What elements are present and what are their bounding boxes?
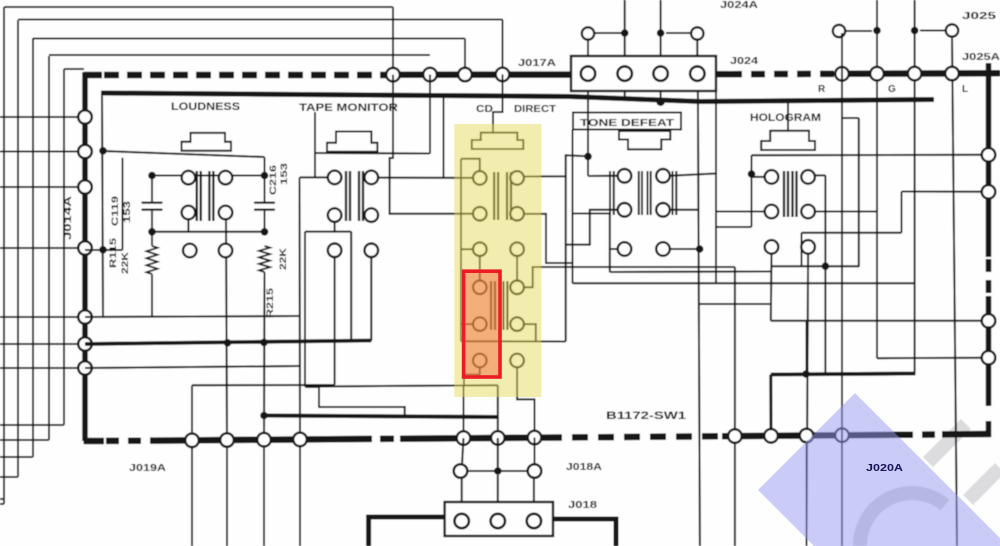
node junction on J014A bus y151.5 xyxy=(78,145,92,159)
wire vertical x443 feed xyxy=(443,96,445,178)
wire x227 below bus xyxy=(226,446,228,546)
wire w1 y272 xyxy=(610,271,771,274)
switch CD contact B2 xyxy=(510,207,524,221)
svg-text:J019A: J019A xyxy=(129,463,166,474)
junction dot rail1 x103 xyxy=(99,147,107,155)
wire x534 midrow to box xyxy=(533,478,535,502)
wire vertical x953 long xyxy=(952,37,957,546)
switch TAPE contact bars xyxy=(345,171,347,221)
switch LOUDNESS NC contact 2 xyxy=(219,244,233,258)
wire staircase vertical 1 xyxy=(3,7,5,499)
wire nested top line 4 xyxy=(49,54,430,56)
wire thick J018 right lead xyxy=(553,519,616,546)
wire x770 drop to bus xyxy=(769,375,772,436)
switch CD2 contact B2 xyxy=(510,317,524,331)
switch TONE contact A1 xyxy=(618,169,632,183)
wire y232 horizontal xyxy=(802,232,902,234)
wire vertical x463 to bus xyxy=(463,386,465,439)
wire pin3 vertical to top edge xyxy=(660,0,662,56)
wire x498 midrow to box xyxy=(497,475,499,502)
label TONE DEFEAT box xyxy=(573,113,681,130)
wire vertical x305 xyxy=(304,232,306,387)
wire vertical x572 from label box xyxy=(572,130,574,284)
wire LOUDNESS rail3 xyxy=(152,231,265,233)
wire y321 long horizontal xyxy=(771,320,989,322)
watermark gray slash 1 xyxy=(928,424,966,462)
switch HOLOGRAM button cap xyxy=(761,131,815,150)
wire nested line1 drop to J017A bus xyxy=(392,7,394,75)
resistor R215 xyxy=(259,246,270,272)
wire mid row horizontal xyxy=(455,470,539,472)
svg-text:L: L xyxy=(962,84,968,95)
wire left tap 1 from J014A bus xyxy=(0,116,85,118)
junction dot x825 y266 xyxy=(822,262,830,270)
switch TONE contact B2 xyxy=(656,203,670,217)
wire HOLOGRAM row1L stub xyxy=(752,176,765,178)
switch CD NC contact 2 xyxy=(510,242,524,256)
wire left tap 4 from J014A bus xyxy=(0,247,85,249)
wire nested line 5 short xyxy=(64,68,84,70)
svg-text:J017A: J017A xyxy=(518,58,556,69)
wire HOLOGRAM NC row line xyxy=(771,265,860,267)
wire pin1 stub up xyxy=(587,40,589,56)
wire CD row3L link xyxy=(461,248,473,250)
wire vertical x565 row1R zig down xyxy=(565,176,567,341)
wire TAPE NC2 drop to thick line xyxy=(370,257,372,341)
wire y316 horizontal xyxy=(85,316,300,317)
node junction on J014A bus y187 xyxy=(78,180,92,194)
wire HOLOGRAM NC1 drop xyxy=(770,254,773,321)
wire vertical x735 to bus xyxy=(734,267,736,436)
junction dot pin3 top xyxy=(657,29,665,37)
wire TAPE row1 left lead xyxy=(300,176,333,178)
switch TAPE contact B1 xyxy=(328,208,342,222)
switch TONE contact A2 xyxy=(656,169,670,183)
wire R215 bottom long lead to bus xyxy=(263,272,266,440)
svg-text:DIRECT: DIRECT xyxy=(514,104,556,115)
wire CD row1R zig to TONE row1L xyxy=(524,155,588,176)
svg-text:R: R xyxy=(818,84,826,95)
wire vertical x315 xyxy=(314,112,316,177)
switch TONE outer bar left xyxy=(609,171,611,215)
wire y385 horizontal xyxy=(192,384,335,386)
wire x735 below bus xyxy=(734,442,736,546)
wire y191 horizontal xyxy=(902,191,989,193)
wire R115 top lead xyxy=(151,232,153,246)
connector J017A box xyxy=(571,56,716,91)
bus right vertical lower xyxy=(986,296,992,406)
svg-text:22K: 22K xyxy=(278,247,288,270)
wire vertical x914 from top edge xyxy=(914,0,916,374)
switch CD2 contact A1 xyxy=(473,281,487,295)
node junction on top bus x502 xyxy=(496,68,510,82)
bus bottom corner at J019A xyxy=(83,438,85,444)
switch LOUDNESS contact bars xyxy=(196,171,198,221)
junction dot y374 x806 xyxy=(802,370,810,378)
switch TONE contact B1 xyxy=(618,203,632,217)
svg-text:J024A: J024A xyxy=(720,0,758,11)
switch LOUDNESS contact B1 xyxy=(182,206,196,220)
wire vertical x877 from top edge xyxy=(876,0,878,358)
node junction bottom bus x842 xyxy=(835,428,849,442)
wire y358 horizontal xyxy=(877,357,989,360)
wire y366 horizontal xyxy=(85,366,300,368)
switch TONE NC contact 2 xyxy=(656,242,670,256)
bus solid thick line (second horizontal) xyxy=(101,93,934,102)
wire TONE row1R to x716 xyxy=(670,174,716,176)
switch CD NC contact 1 xyxy=(473,242,487,256)
junction dot rail3 x152 xyxy=(148,228,156,236)
connector J018 box xyxy=(445,502,553,536)
wire LOUDNESS rail1 xyxy=(103,151,265,157)
capacitor C216 symbol xyxy=(254,202,275,204)
switch HOLOGRAM contact bars xyxy=(783,171,785,217)
wire x806 below bus xyxy=(806,441,808,546)
wire vertical from solid-line corner x103 xyxy=(102,93,103,317)
junction dot rail3 x264 xyxy=(261,228,269,236)
switch LOUDNESS button cap xyxy=(182,133,232,151)
junction dot x751 y174 xyxy=(748,170,756,178)
junction dot x103 y250 xyxy=(99,246,107,254)
node circle x839 xyxy=(833,25,845,37)
junction on solid line at pin xyxy=(656,98,664,106)
svg-text:R115: R115 xyxy=(108,238,118,268)
svg-text:B1172-SW1: B1172-SW1 xyxy=(606,410,686,422)
wire staircase vertical 2 xyxy=(17,20,19,477)
switch CD2 contact bars xyxy=(490,281,492,330)
wire nested line3 drop xyxy=(464,39,466,75)
wire staircase bottom horizontal 3 xyxy=(0,456,33,458)
wire x716 to x751 y227 xyxy=(716,226,752,228)
wire nested top line 1 xyxy=(4,6,393,8)
wire HOLOGRAM NC2 long drop xyxy=(807,254,809,546)
wire staircase vertical 3 xyxy=(32,38,34,457)
bus top solid segment with junctions xyxy=(388,71,571,78)
node mid circle right xyxy=(528,464,542,478)
node junction on top bus x914 xyxy=(908,67,922,81)
node junction on top bus x952 xyxy=(945,67,959,81)
wire staircase vertical 5 xyxy=(63,69,65,425)
wire vertical x498 to bus xyxy=(497,385,499,438)
wire vertical x122 rail1 to y250 xyxy=(122,158,124,250)
bus bottom dashed segment 4 xyxy=(900,431,944,438)
node junction bottom bus x192 xyxy=(185,434,199,448)
svg-text:J018: J018 xyxy=(568,500,598,511)
wire TONE NC1 stub xyxy=(610,248,618,250)
wire pin1 drop through dot xyxy=(587,91,589,176)
wire link x845-x872 xyxy=(845,30,872,32)
node circle above pin1 xyxy=(582,27,594,39)
svg-text:HOLOGRAM: HOLOGRAM xyxy=(750,112,821,124)
node junction on J014A bus y248 xyxy=(78,241,92,255)
switch TONE NC contact 1 xyxy=(618,242,632,256)
svg-text:J024: J024 xyxy=(730,56,759,67)
wire left tap 6 from J014A bus xyxy=(0,343,85,345)
wire bus junction x502 drop to cap feed xyxy=(493,74,503,133)
switch HOLOGRAM contact B2 xyxy=(801,205,815,219)
wire CD2 B1 link left xyxy=(461,323,473,325)
wire x264 below bus xyxy=(263,446,265,546)
wire vertical x430 from bus junction xyxy=(429,75,431,154)
switch TONE outer bar right xyxy=(672,171,674,215)
wire right stub vertical x842 top xyxy=(841,40,843,71)
node junction on top bus x465 xyxy=(458,68,472,82)
wire LOUDNESS rail2 xyxy=(152,175,265,177)
svg-text:153: 153 xyxy=(279,163,289,185)
bus bottom right corner segment xyxy=(942,431,991,438)
wire x588 to TONE row1L xyxy=(588,175,618,177)
wire w3 y304 xyxy=(699,303,771,305)
bus J014A vertical (thick) xyxy=(82,72,88,441)
node junction on top bus x842 xyxy=(835,67,849,81)
wire R115 bottom lead xyxy=(151,274,153,316)
svg-text:22K: 22K xyxy=(120,251,130,274)
wire C216 top lead xyxy=(264,157,266,203)
wire link circle to pin2 line xyxy=(594,32,625,34)
node circle right bus y192 xyxy=(982,185,996,199)
switch HOLOGRAM contact A2 xyxy=(801,170,815,184)
resistor R115 xyxy=(147,246,158,274)
switch CD button cap xyxy=(472,133,524,149)
wire vertical x300 long xyxy=(299,178,302,440)
wire contact B1 to rail3 xyxy=(187,219,189,232)
node junction on top bus x430 xyxy=(423,68,437,82)
switch TONE button cap pressed xyxy=(619,131,670,149)
switch CD contact A1 xyxy=(473,171,487,185)
node junction bottom bus x771 xyxy=(764,429,778,443)
switch TAPE contact A2 xyxy=(365,171,379,185)
svg-text:R215: R215 xyxy=(265,288,275,318)
svg-text:TONE DEFEAT: TONE DEFEAT xyxy=(580,117,675,129)
switch TAPE NC contact 1 xyxy=(328,244,342,258)
wire link x920-x946 xyxy=(920,30,946,32)
junction dot x588 y156 xyxy=(584,153,592,161)
wire link x843 to x859 xyxy=(843,117,859,119)
switch CD contact B1 xyxy=(473,207,487,221)
wire x801 vertical xyxy=(801,233,803,267)
junction dot mid xyxy=(494,467,502,475)
wire CD NC2 to section2 xyxy=(516,256,518,281)
wire pin2 vertical to top edge xyxy=(624,0,626,56)
watermark blue diamond xyxy=(758,393,1000,546)
node junction bottom bus x534 xyxy=(528,431,542,445)
wire x498 bus to mid row xyxy=(497,438,499,471)
junction dot rail2 x264 xyxy=(261,172,269,180)
junction dot pin2 top xyxy=(621,29,629,37)
wire pin4 long vertical xyxy=(698,91,700,546)
junction dot y342 x264 xyxy=(260,339,268,347)
switch CD2 contact B1 xyxy=(473,317,487,331)
wire staircase vertical 4 xyxy=(48,56,50,440)
wire vertical x859 xyxy=(858,118,860,266)
wire TAPE row1 right lead to CD xyxy=(375,177,473,179)
wire CD row2R jog down xyxy=(524,214,572,263)
connector J018 pin 3 xyxy=(527,514,541,528)
connector J017A pin 2 xyxy=(618,66,632,80)
wire nested line2 drop xyxy=(502,20,504,75)
bus right vertical bottom piece xyxy=(986,421,992,437)
node junction bottom bus x498 xyxy=(491,431,505,445)
svg-text:153: 153 xyxy=(122,201,132,223)
node circle x952 xyxy=(946,24,958,36)
switch HOLOGRAM NC contact 1 xyxy=(765,240,779,254)
switch TAPE button cap xyxy=(327,132,377,152)
wire staircase bottom horizontal 2 xyxy=(0,476,18,478)
switch HOLOGRAM NC contact 2 xyxy=(801,240,815,254)
bus top segment right of J017A connector xyxy=(716,71,728,78)
wire staircase bottom horizontal 4 xyxy=(0,439,49,441)
wire x462 midrow to box xyxy=(461,478,463,502)
svg-text:CD: CD xyxy=(476,104,493,115)
bus bottom solid segment left group xyxy=(158,439,358,441)
node junction bottom bus x227 xyxy=(220,433,234,447)
switch HOLOGRAM contact A1 xyxy=(765,170,779,184)
switch CD2 NC contact 2 xyxy=(510,354,524,368)
node circle right bus y155 xyxy=(982,148,996,162)
svg-text:J025A: J025A xyxy=(962,52,1000,63)
wire CD2 A2 jog up and right xyxy=(524,267,735,287)
bus right vertical dashes xyxy=(986,259,992,296)
wire contact B2 to rail3 and bus xyxy=(226,219,227,440)
wire x300 below bus xyxy=(299,446,301,546)
wire HOLOGRAM row2R stub xyxy=(815,211,877,213)
svg-text:C119: C119 xyxy=(110,196,120,226)
node junction on J014A bus y344 xyxy=(78,337,92,351)
wire x192 below bus xyxy=(191,446,193,546)
wire x901 vertical xyxy=(901,192,903,233)
wire thick J018 left lead xyxy=(369,517,445,546)
wire TAPE rail1 xyxy=(315,152,430,155)
node junction bottom bus x264 xyxy=(257,433,271,447)
wire vertical x825 xyxy=(824,175,826,374)
wire HOLOGRAM row2L stub xyxy=(716,211,765,213)
svg-text:TAPE MONITOR: TAPE MONITOR xyxy=(299,102,398,114)
wire pin2 below box to solid line xyxy=(624,91,626,101)
wire y417 thick horizontal xyxy=(264,416,498,418)
svg-text:J018A: J018A xyxy=(566,462,602,473)
wire staircase bottom horizontal 5 xyxy=(0,424,64,426)
wire vertical x351 to thick line xyxy=(350,232,352,341)
wire y374 thick horizontal xyxy=(771,374,916,375)
wire x463 bus to mid row xyxy=(462,438,464,464)
switch LOUDNESS contact B2 xyxy=(219,206,233,220)
junction dot rail2 x152 xyxy=(148,172,156,180)
wire CD2 NC2 jog to bus xyxy=(517,367,534,438)
node junction bottom bus x735 xyxy=(728,429,742,443)
wire CD2 NC1 jog to y386 xyxy=(464,367,480,386)
wire y342 thick horizontal xyxy=(85,341,371,345)
switch CD contact bars xyxy=(493,172,495,220)
wire nested top line 3 xyxy=(33,38,465,40)
wire left tap 3 from J014A bus xyxy=(0,186,85,188)
junction dot x876 top xyxy=(873,27,881,35)
wire staircase bottom horizontal 1 xyxy=(0,498,4,500)
node circle right bus y358 xyxy=(982,351,996,365)
wire pin3 below box to solid line xyxy=(660,91,662,102)
node junction on J014A bus y317 xyxy=(78,310,92,324)
switch TONE contact bars xyxy=(638,171,640,215)
watermark gray arc xyxy=(860,493,945,546)
wire C119 top lead xyxy=(151,176,153,203)
connector J017A pin 1 xyxy=(581,66,595,80)
bus bottom solid segment right group xyxy=(722,435,900,436)
bus top dashed segment (left corner) xyxy=(84,72,102,79)
junction dot y342 x228 xyxy=(224,339,232,347)
node junction on top bus x877 xyxy=(870,67,884,81)
wire CD NC1 to section2 xyxy=(479,256,481,281)
switch LOUDNESS contact A2 xyxy=(219,171,233,185)
bus bottom dashed segment 2 xyxy=(358,435,402,442)
wire TAPE jog left extension xyxy=(305,231,335,233)
wire left tap 7 from J014A bus xyxy=(0,367,85,369)
node junction on top bus x394 xyxy=(386,68,400,82)
node junction bottom bus x806 xyxy=(800,429,814,443)
wire TONE row2L jog xyxy=(566,210,618,245)
wire TAPE B1 jog xyxy=(335,222,352,232)
switch CD2 NC contact 1 xyxy=(473,354,487,368)
switch LOUDNESS contact A1 xyxy=(182,171,196,185)
switch TAPE NC contact 2 xyxy=(365,244,379,258)
node circle above pin4 xyxy=(691,27,703,39)
wire bus junction x394 drop and jog to CD xyxy=(390,75,474,214)
wire TONE NC1 jogs xyxy=(573,214,610,273)
switch TAPE contact B2 xyxy=(365,208,379,222)
wire y341 thin horizontal xyxy=(461,340,566,342)
connector J017A pin 3 xyxy=(653,66,667,80)
wire HOLOGRAM cap feed xyxy=(787,101,789,131)
wire nested top line 2 xyxy=(18,19,503,21)
capacitor C119 symbol xyxy=(142,202,163,204)
connector J018 pin 2 xyxy=(491,514,505,528)
wire CD rail to row1L xyxy=(461,159,480,171)
svg-text:J025: J025 xyxy=(962,11,997,22)
bus bottom solid segment middle group xyxy=(400,438,546,439)
wire link pin3 to circle xyxy=(666,32,691,34)
wire left tap 2 from J014A bus xyxy=(0,151,85,153)
highlight yellow rectangle CD DIRECT xyxy=(454,124,541,397)
bus top dashed segment J024 xyxy=(728,71,838,78)
wire HOLOGRAM row1R stub xyxy=(815,174,826,176)
switch CD2 contact A2 xyxy=(510,281,524,295)
node junction bottom bus x463 xyxy=(457,431,471,445)
wire TONE row2R stub xyxy=(670,209,699,211)
svg-text:G: G xyxy=(888,84,896,95)
node junction bottom bus x300 xyxy=(293,433,307,447)
wire y386 horizontal xyxy=(305,385,498,386)
wire x806 segment above xyxy=(806,321,808,374)
wire TAPE NC1 drop to y385 xyxy=(334,257,336,385)
wire x842 long vertical xyxy=(841,33,843,546)
wire w2 y283 xyxy=(573,282,915,284)
junction dot x914 top xyxy=(911,27,919,35)
wire vertical x716 below box xyxy=(715,91,717,283)
svg-text:C216: C216 xyxy=(268,165,278,195)
bus right vertical thick upper xyxy=(986,63,992,257)
connector J018 pin 1 xyxy=(455,514,469,528)
switch TAPE contact A1 xyxy=(328,171,342,185)
wire C216 bottom lead xyxy=(264,210,266,232)
wire CD left rail corner xyxy=(460,159,462,342)
wire jog x319 y407 xyxy=(306,387,405,417)
wire x534 bus to mid row xyxy=(534,438,536,465)
bus bottom segment 1 xyxy=(84,438,104,445)
switch LOUDNESS NC contact 1 xyxy=(183,244,197,258)
wire CD2 B2 jog down xyxy=(524,324,536,341)
switch CD contact A2 xyxy=(510,171,524,185)
watermark gray slash 2 xyxy=(968,468,1000,500)
svg-text:J020A: J020A xyxy=(866,463,903,474)
junction dot y417 x264 xyxy=(260,412,268,420)
